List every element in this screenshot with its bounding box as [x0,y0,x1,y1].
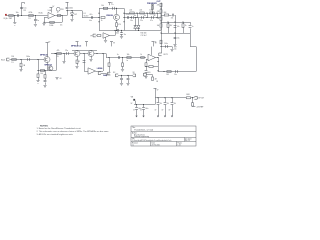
svg-text:10n: 10n [16,12,19,14]
wire feed [161,15,176,22]
node U1n [108,57,109,58]
pad dc+ [133,72,136,77]
wire [183,27,185,33]
capacitor C6b [116,29,119,35]
svg-text:9V: 9V [157,90,159,92]
wire [116,26,118,30]
ground [89,60,92,62]
svg-text:1k: 1k [185,25,187,27]
node G [71,10,72,11]
resistor R22 [40,70,44,75]
node N7 [152,12,153,13]
svg-text:3. All LEDs are standard brigh: 3. All LEDs are standard brightness unit… [37,133,74,136]
resistor R34 [186,94,191,99]
node N2 [146,12,147,13]
power flag [108,2,113,5]
node Q5n [160,32,161,33]
svg-text:9V: 9V [48,42,50,44]
svg-text:2N5089: 2N5089 [106,15,113,17]
wire [45,71,47,75]
pad dc- [113,72,118,77]
wire [84,54,88,72]
node N6 [156,17,157,18]
resistor R3b [57,12,61,16]
node R1n [160,46,161,47]
diode D3a [134,25,137,28]
ground [104,41,107,43]
wire [14,16,16,23]
svg-text:4k7: 4k7 [170,25,173,27]
wire [138,28,140,30]
svg-text:10n: 10n [60,25,63,27]
node F [66,10,67,11]
capacitor C8 [130,16,133,22]
label ladder2 [144,15,147,17]
wire [151,47,153,55]
wire [77,63,79,65]
svg-text:47k: 47k [157,5,160,7]
svg-text:VIN: VIN [131,97,134,99]
node I [116,8,117,9]
power flag vcc [154,88,159,97]
node U2n [122,57,123,58]
svg-text:470: 470 [118,24,121,26]
capacitor C4 [66,8,73,10]
svg-text:4u7: 4u7 [77,61,80,63]
op-amp U2A [88,68,96,74]
svg-text:10k: 10k [101,5,104,7]
svg-text:9V: 9V [113,43,115,45]
svg-text:TP1: TP1 [107,74,110,76]
resistor R6 [116,23,122,27]
svg-text:0V: 0V [162,109,164,111]
wire [128,75,130,78]
resistor R5 [101,17,105,23]
wire [122,58,124,63]
svg-text:22k: 22k [139,10,142,12]
svg-text:47k: 47k [57,50,60,52]
svg-text:10k: 10k [127,54,130,56]
pad vref [196,107,203,109]
node M [130,17,131,18]
ground arrow [140,109,145,117]
node K2 [121,30,122,31]
wire [168,27,170,33]
node K [114,30,115,31]
power flag [152,42,157,47]
capacitor C18 [26,56,30,61]
ground [43,86,46,88]
power flag +9V [46,42,51,44]
svg-text:9V: 9V [131,103,133,105]
capacitor C7 [126,14,130,19]
note 1 [37,127,82,130]
wire [172,47,174,49]
wire [106,54,146,58]
svg-text:10k: 10k [40,73,43,75]
svg-text:47n: 47n [89,14,92,16]
output pad J3 [159,53,168,56]
wire rail [161,22,190,24]
node X4 [164,97,165,98]
svg-text:0V: 0V [140,109,142,111]
node T2 [54,53,55,54]
wire loop [146,66,158,68]
ground [121,70,124,72]
resistor R27 [108,63,110,67]
transistor Q3 [48,66,53,71]
wire tie [157,13,159,18]
node H3 [98,21,99,22]
capacitor C20 [65,50,68,55]
wire dc [118,75,133,77]
node T1 [55,53,56,54]
wire [67,9,69,15]
node Q3n [182,21,183,22]
wire [121,75,123,78]
wire [146,75,153,78]
resistor R4 [101,5,108,9]
title block [131,126,196,146]
capacitor C28 [142,105,148,112]
wire loop [99,8,125,30]
wire [21,67,23,69]
ground [173,45,176,47]
capacitor C15 [189,26,194,29]
svg-text:47u: 47u [167,103,170,105]
wire [91,49,93,52]
capacitor C31 [171,98,177,111]
node S1 [20,59,21,60]
svg-text:5V1: 5V1 [74,14,77,16]
notes heading [40,125,49,127]
input pad J2 [1,58,9,61]
svg-text:MPSA18 x2: MPSA18 x2 [71,44,81,47]
label out [157,1,162,3]
resistor R7 [129,10,134,14]
svg-text:100n: 100n [26,56,30,58]
wire rail top [124,13,161,15]
wire [35,16,37,20]
node V4 [163,71,164,72]
svg-text:10k: 10k [157,25,160,27]
transistor Q5 [88,51,94,57]
wire [77,56,79,60]
capacitor C1 [16,12,19,17]
svg-text:10k: 10k [144,15,147,17]
wire [82,17,100,19]
svg-text:10k: 10k [134,15,137,17]
wire tie [137,13,139,18]
node T5 [96,53,97,54]
wire [44,16,63,23]
wire [158,71,196,73]
node N1 [136,12,137,13]
node A [14,15,15,16]
resistor R13 [157,3,162,6]
wire [55,15,67,17]
wire [193,105,196,108]
wire [9,59,44,61]
svg-text:TR1: TR1 [61,9,64,11]
node S2 [37,59,38,60]
wire [134,101,155,105]
wire [190,28,192,33]
node V2 [157,61,158,62]
capacitor C9 [140,16,143,22]
ground [144,77,147,79]
resistor R6b [97,35,101,37]
capacitor C22 [117,54,120,59]
label r12 [141,35,147,37]
wire [64,54,66,62]
svg-text:100n: 100n [69,8,73,10]
resistor R16 [157,24,162,27]
wire rail [161,33,190,35]
wire [128,80,130,83]
ground [19,70,22,72]
svg-text:10u: 10u [124,34,127,36]
svg-text:C17: C17 [174,46,177,48]
wire [109,67,111,73]
ground arrow [133,109,138,117]
svg-text:OUT1: OUT1 [163,54,168,56]
capacitor C2 [20,8,26,13]
svg-text:1u: 1u [111,4,113,6]
wire [135,28,137,30]
svg-text:47k: 47k [157,11,160,13]
wire [175,22,177,44]
wire [80,53,88,55]
svg-text:100n: 100n [116,33,119,35]
node S4 [44,70,45,71]
svg-text:0V: 0V [169,109,171,111]
capacitor C13b [171,14,174,20]
transistor Q4 [74,51,80,57]
node D [61,15,62,16]
wire [121,30,123,33]
ground [170,50,173,52]
wire [121,34,123,36]
node W2 [127,75,128,76]
wire [77,49,79,52]
wire [47,43,49,57]
node V3 [157,70,158,71]
svg-text:10u: 10u [177,38,180,40]
svg-text:100u: 100u [145,108,148,110]
capacitor C25 [120,79,123,80]
wire [116,8,118,14]
svg-text:1. Based on the RunoffGroove T: 1. Based on the RunoffGroove Thunderbird… [37,127,82,130]
node H2 [98,13,99,14]
label U2 type [97,68,103,70]
svg-text:25V: 25V [23,10,26,12]
wire [183,22,185,24]
svg-text:2M2: 2M2 [9,18,13,20]
svg-text:100: 100 [166,74,169,76]
svg-text:MPSA18: MPSA18 [40,54,48,57]
wire [72,16,74,19]
node Q2n [174,21,175,22]
node N3 [156,12,157,13]
svg-text:C12 4n7: C12 4n7 [141,35,147,37]
ground arrow [162,109,167,117]
svg-text:47n: 47n [150,20,153,22]
wire tie [147,13,149,18]
node T3 [63,53,64,54]
svg-text:47n: 47n [177,26,180,28]
svg-text:6k8: 6k8 [164,12,167,14]
wire [161,47,163,54]
node X6 [192,97,193,98]
wire [161,46,172,48]
trimmer VR1 [56,7,63,11]
wire [138,18,140,26]
wire rail [72,50,97,52]
resistor R25 [57,50,62,58]
wire [146,66,148,70]
node V5 [145,66,146,67]
capacitor C24 [174,70,177,76]
resistor R15 [157,17,162,20]
node T4 [83,53,84,54]
svg-text:47u: 47u [160,103,163,105]
resistor R9 [149,10,154,14]
ground [34,25,37,27]
pad led [143,72,151,76]
capacitor C3 [34,20,39,22]
svg-text:Thunderbird - v2 mod: Thunderbird - v2 mod [134,130,153,132]
wire [105,37,107,40]
svg-text:0V: 0V [155,109,157,111]
wire chain [161,3,163,47]
svg-text:10u: 10u [174,74,177,76]
svg-text:LM386: LM386 [97,68,103,70]
svg-text:TP: TP [90,35,92,37]
node W1 [121,75,122,76]
svg-text:0V: 0V [133,109,135,111]
svg-text:Revision:: Revision: [132,142,139,144]
svg-text:4k7: 4k7 [155,78,158,80]
wire loop [38,54,57,71]
svg-text:1.1: 1.1 [132,144,134,146]
node N5 [146,17,147,18]
wire rail bottom [124,30,161,32]
node Q4n [174,32,175,33]
resistor R17 [167,24,172,28]
svg-text:1u: 1u [117,54,119,56]
ground [62,62,65,64]
svg-text:100n: 100n [164,43,168,45]
wire [47,62,49,70]
node P1 [160,8,161,9]
capacitor C5 [89,14,92,22]
svg-text:Pages:: Pages: [178,142,183,144]
node O3 [135,17,136,18]
wire [155,98,157,105]
label Q1 type [106,15,113,17]
zener diode D1 [71,13,78,16]
node X5 [171,97,172,98]
label preamp [71,44,81,47]
wire [91,56,93,59]
capacitor C6c [120,33,126,36]
svg-text:22n: 22n [140,20,143,22]
svg-text:+9V OUT: +9V OUT [197,98,204,100]
label c-fb [60,25,63,27]
svg-text:D3: D3 [156,81,158,83]
wire [146,59,148,63]
svg-text:9V: 9V [155,43,157,45]
node V1 [157,57,158,58]
resistor R26 [76,60,78,63]
transistor Q1 [114,14,120,20]
node C [35,15,36,16]
node L1 [123,13,124,14]
resistor R8 [139,10,144,14]
node L2 [123,17,124,18]
wire [110,30,116,35]
node L3 [123,21,124,22]
power flag +9V [66,2,69,6]
capacitor C13 [174,26,180,29]
svg-text:4k7: 4k7 [154,15,156,17]
svg-text:100k: 100k [49,25,53,27]
capacitor C23 [145,71,148,73]
resistor R35 [192,103,194,106]
wire [38,71,40,74]
svg-text:NOTES:: NOTES: [40,125,49,127]
svg-text:220n: 220n [126,14,130,16]
op-amp U1B [103,33,110,39]
wire [190,22,192,25]
wire [67,11,83,18]
ground [42,24,45,26]
wire [38,78,40,81]
capacitor C21 [77,61,85,63]
pad vout [194,96,204,99]
wire [146,73,148,76]
wire [168,22,170,24]
resistor R3 [49,21,54,27]
node J [116,30,117,31]
node E [43,22,44,23]
node X1 [136,104,137,105]
pad tp2 [90,34,96,37]
resistor R31 [149,66,153,68]
pad vin [131,97,136,105]
wire [192,98,194,103]
svg-text:10k: 10k [149,10,152,12]
label presence [147,3,158,5]
svg-text:22k: 22k [129,10,132,12]
capacitor C29 [157,98,163,111]
svg-text:47u: 47u [174,103,177,105]
ground arrow [169,109,174,117]
wire [109,58,111,63]
power flag +9V [50,6,55,8]
resistor R14 [157,10,162,13]
ground [13,23,16,26]
svg-text:1n: 1n [37,20,39,22]
label r11 [141,33,147,35]
wire [122,67,124,70]
ground [126,84,129,86]
node T6 [102,53,103,54]
svg-text:10u: 10u [23,8,26,10]
node O2 [138,30,139,31]
svg-text:1k: 1k [101,20,103,22]
